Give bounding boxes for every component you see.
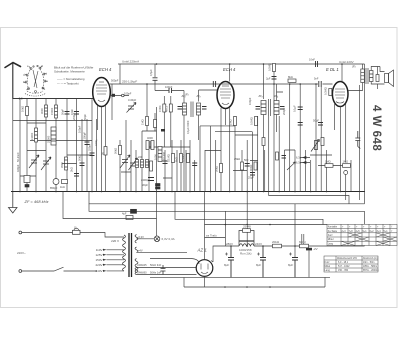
svg-text:517 - 1622: 517 - 1622 [338,265,350,268]
capacitor C17 [156,187,161,189]
capacitor C44 [282,156,287,159]
power transformer primary winding [123,233,139,277]
electrolytic C34 [289,253,298,278]
mains line L [21,233,124,238]
svg-text:(P): (P) [352,65,356,69]
svg-text:200pF: 200pF [72,112,76,120]
power transformer secondary 4V [135,247,138,253]
component value labels [16,58,356,275]
resistor R11 [241,162,244,170]
svg-text:Lang: Lang [328,243,334,246]
svg-text:5nF: 5nF [314,77,319,81]
wire B+ feeds [225,192,303,258]
svg-text:150V: 150V [95,258,102,262]
electrolytic C33 [257,246,266,277]
resistor R10 [220,164,223,173]
fuse Si [73,228,81,234]
wire routing step2 [89,192,365,204]
svg-text:3500: 3500 [60,162,64,168]
electrolytic C32 [225,246,234,277]
svg-text:7+8: 7+8 [349,230,354,233]
resistor R3 [119,146,122,155]
capacitor C30 [126,209,137,219]
wire routing step5 [364,211,366,246]
wire rail2 right [323,83,333,85]
frequency table [324,256,378,272]
svg-text:— — = Tastpunkt: — — = Tastpunkt [57,82,79,86]
capacitor C24 [272,77,277,80]
capacitor C23 [280,107,285,110]
svg-text:(P): (P) [185,93,189,97]
wire top rail drops [147,64,342,131]
svg-text:Wellenbereich kHz: Wellenbereich kHz [337,257,358,260]
svg-text:100pF: 100pF [165,85,173,89]
wire mid horizontals [142,126,258,147]
capacitor C43 [161,129,165,132]
svg-text:2+3: 2+3 [342,230,347,233]
wire C35 drop [308,250,310,277]
capacitor C28 [316,61,318,67]
svg-text:2400pF: 2400pF [141,178,150,182]
IF transformer 1 core [191,102,193,118]
wire AVC line [13,120,92,122]
switch arrow S2 [287,162,296,170]
ground [9,192,18,214]
wire chassis bus [11,191,365,193]
svg-text:6,3a: 6,3a [296,161,302,165]
wire table feed line [205,224,328,226]
svg-text:50-21nF: 50-21nF [16,152,20,162]
svg-text:185m - 580m: 185m - 580m [363,265,377,268]
svg-text:220 V: 220 V [111,239,119,243]
svg-text:2µF: 2µF [266,77,271,81]
resistor R1 [26,107,29,116]
wire grid tap line [110,95,129,97]
wire heater line [63,192,157,219]
svg-text:Kurz: Kurz [328,234,334,237]
resistor R20 [376,75,379,82]
svg-text:0,1µF-5000: 0,1µF-5000 [186,120,190,134]
speaker [385,74,389,83]
svg-text:0,1µF: 0,1µF [293,105,297,112]
svg-text:ZF = 468 kHz: ZF = 468 kHz [24,199,49,204]
svg-text:ZF₃: ZF₃ [258,94,263,98]
wire B+ from rectifier [211,261,213,263]
svg-text:100pF: 100pF [248,97,252,105]
wire right horizontals [300,155,351,166]
wire transformer feed stub [205,238,226,260]
svg-text:za Trafo: za Trafo [206,234,217,238]
svg-text:~6,3V: ~6,3V [137,235,144,239]
svg-text:30pF: 30pF [142,183,148,187]
voltage taps [103,249,107,272]
capacitor C37 [202,107,207,110]
svg-text:50kΩ: 50kΩ [78,155,82,161]
svg-text:4 W 648: 4 W 648 [370,105,382,151]
wire transformer drop [204,192,206,238]
svg-text:125V: 125V [95,253,102,257]
pickup arrows [303,156,306,163]
svg-text:250-1,5kpF: 250-1,5kpF [122,80,137,84]
svg-text:Umkl.220V: Umkl.220V [339,60,354,64]
tube U2 ECH4 [217,82,234,109]
capacitor C35 [306,248,312,251]
svg-text:Mittel: Mittel [325,265,331,268]
legend text block [54,66,94,86]
svg-text:1MΩ: 1MΩ [229,119,233,125]
junction circle [122,94,125,97]
svg-text:1kΩ: 1kΩ [60,185,65,189]
coil L6 [136,160,139,168]
wire tube2 legs [221,108,230,192]
resistor R27 [262,138,265,146]
capacitor C38 series [169,88,172,93]
resistor R24 [163,104,166,112]
svg-text:L3000: L3000 [30,132,34,140]
svg-text:UAW/90: UAW/90 [137,270,147,274]
trimmer capacitor C12 [120,155,130,168]
svg-text:25kΩ: 25kΩ [234,157,240,161]
svg-text:ZF₂: ZF₂ [196,94,201,98]
svg-text:3+4: 3+4 [377,230,382,233]
svg-text:5+1: 5+1 [384,230,389,233]
power transformer secondary HT [135,259,138,273]
capacitor C21 [250,173,255,176]
mains line N [21,267,97,271]
svg-text:Kurz: Kurz [325,261,331,264]
padder capacitor C15 [148,178,154,181]
wire rail2 [110,83,318,85]
choke L10 [239,231,254,247]
resistor R16 [329,89,332,96]
coil L2 [55,105,58,118]
tube U1 ECH4 [93,78,111,107]
capacitor C1 [65,112,70,115]
tube socket view diagram [24,65,48,96]
svg-text:10-300: 10-300 [162,151,166,160]
svg-text:Schaltseite. Messwerte: Schaltseite. Messwerte [54,70,85,74]
svg-text:4/0,1: 4/0,1 [165,106,169,112]
svg-text:4+5: 4+5 [356,230,361,233]
resistor R23 [300,244,309,248]
coil L7 [141,160,144,168]
svg-text:50kΩ: 50kΩ [114,148,118,154]
svg-text:16m - 50m: 16m - 50m [363,261,374,264]
wire B+ rail [205,246,365,287]
svg-text:25µF: 25µF [248,176,254,180]
capacitor C31 heater [161,265,166,275]
capacitor C7 [53,179,59,185]
svg-text:25000: 25000 [47,135,51,143]
svg-text:1MΩ: 1MΩ [325,160,331,164]
resistor R22 [273,244,282,248]
capacitor C29 [318,123,323,126]
capacitor C39 [153,78,158,81]
svg-text:47/04: 47/04 [158,105,162,112]
svg-text:3000: 3000 [40,108,44,114]
svg-text:AZ 1: AZ 1 [197,248,208,253]
svg-text:500pF: 500pF [111,79,119,83]
resistor R13 [273,64,276,72]
power transformer core [129,233,132,277]
coil L1 [45,105,48,117]
resistor R9 [255,117,258,126]
svg-text:240V: 240V [255,242,262,246]
svg-text:150 - 350: 150 - 350 [338,269,349,272]
wire misc connectors [62,150,295,178]
IF transformer ZF coil right [274,101,279,115]
wire 4V line [137,251,188,253]
wire tube1 legs [98,105,106,192]
switch table [327,224,397,245]
wire top rail [11,64,365,192]
capacitor C9 [90,153,95,156]
svg-text:6+2: 6+2 [370,230,375,233]
wire left horizontals [20,123,92,176]
pilot lamp [154,236,160,242]
svg-text:9+1: 9+1 [363,230,368,233]
resistor R15 [321,138,324,146]
trimmer capacitor C3 [29,155,39,168]
indicator circle [344,171,348,175]
svg-text:Ku-Taste: Ku-Taste [328,230,338,233]
svg-text:100pF: 100pF [83,132,87,140]
svg-text:0,3MΩ: 0,3MΩ [182,154,186,162]
output transformer primary [361,69,365,83]
svg-text:Ron 2(k): Ron 2(k) [240,252,252,256]
capacitor C20 [245,164,250,167]
svg-text:ACR₂: ACR₂ [94,140,98,146]
svg-text:0,5MΩ: 0,5MΩ [249,117,253,125]
wire tap leads [107,250,125,271]
resistor R2 [62,180,68,184]
svg-text:50kΩ: 50kΩ [215,166,219,172]
svg-text:Si: Si [74,226,77,230]
svg-text:UAW/25: UAW/25 [137,263,147,267]
svg-text:100pF: 100pF [124,92,132,96]
svg-text:50µF: 50µF [313,119,319,123]
capacitor C22 [256,107,261,110]
resistor R12 [254,162,257,170]
svg-text:0,5µF: 0,5µF [149,69,153,76]
resistor R18 [343,164,351,168]
svg-text:6,3a: 6,3a [296,156,302,160]
svg-text:220V~: 220V~ [17,251,26,255]
wire plate line to IFT1 [155,90,217,192]
rectifier tube AZ1 [196,260,213,277]
svg-text:110V: 110V [96,248,103,252]
capacitor C36 [178,107,183,110]
svg-text:-2V: -2V [313,247,318,251]
trimmer capacitor C40 [127,103,137,113]
svg-text:1MΩ: 1MΩ [141,119,145,125]
svg-text:60(k): 60(k) [299,240,306,244]
svg-text:1000: 1000 [154,154,158,160]
svg-text:50pF: 50pF [83,114,87,120]
svg-text:200pF: 200pF [282,107,286,115]
resistor R25 [169,104,172,112]
resistor R26 [146,117,149,126]
svg-text:15000: 15000 [50,107,54,115]
svg-text:Mittel: Mittel [328,238,334,241]
svg-text:Umkl.220mA: Umkl.220mA [122,60,139,64]
IF transformer 1 coil right [197,103,201,115]
capacitor C26 [298,123,303,126]
IF transformer ZF coil left [261,101,266,115]
capacitor C10 [80,163,85,166]
svg-text:10kΩ: 10kΩ [21,106,25,112]
oscillator coil L9 [146,141,149,150]
svg-text:250pF: 250pF [88,143,92,151]
wire IFT2 connections [264,84,284,192]
IF transformer 1 coil left [183,103,187,115]
resistor R17 [325,164,333,168]
svg-text:4µF: 4µF [122,212,127,216]
variable capacitor C5 [24,176,30,183]
svg-text:8µF: 8µF [224,263,229,267]
svg-text:0,1MΩ: 0,1MΩ [167,154,171,162]
svg-text:100pF: 100pF [78,125,82,133]
capacitor C11 [74,174,79,177]
coil L4 [51,127,56,145]
output transformer secondary [370,71,374,82]
power transformer secondary heater [135,268,138,275]
svg-text:1MΩ: 1MΩ [343,160,349,164]
capacitor C25 [298,107,303,110]
capacitor C27 series [319,81,321,87]
capacitor C18 [163,161,168,164]
svg-text:400Ω: 400Ω [249,165,253,171]
tube U3 EDL1 [332,82,348,107]
wire speaker drop [377,67,379,90]
resistor R8 [234,117,237,126]
svg-text:0,3MΩ: 0,3MΩ [324,87,328,95]
resistor R14 [288,79,296,82]
svg-text:Abstimmb.(m): Abstimmb.(m) [363,257,378,260]
svg-text:E DL 1: E DL 1 [326,67,339,72]
resistor R5 [172,154,175,163]
IF transformer core [269,99,271,116]
svg-text:4000: 4000 [147,136,153,140]
trimmer capacitor C13 [129,158,138,170]
resistor R29 [276,152,279,160]
wire mid columns [112,84,216,192]
wire antenna bus [13,98,93,100]
wire 6.3V line [137,238,155,240]
wire lamp feed [156,192,158,237]
capacitor C8 [85,142,90,145]
svg-text:ZF₄: ZF₄ [273,94,278,98]
potentiometer P1 [311,140,320,152]
svg-text:220: 220 [138,155,143,159]
wire output transformer connections [348,64,385,91]
wire rail drop left [119,64,121,84]
wire routing step1 [269,192,349,204]
capacitor C42 [112,94,116,97]
svg-text:20kΩ: 20kΩ [272,240,280,244]
wire routing step3 [89,204,365,212]
coil L8 [146,160,149,168]
capacitor C45 series [213,81,215,87]
svg-text:50pF: 50pF [61,109,65,115]
resistor R30 [104,147,107,156]
svg-text:≈4V: ≈4V [138,248,143,252]
output transformer core [366,68,368,84]
resistor R21 bypass [243,229,251,233]
wire left columns [13,99,97,192]
coil L5 [65,157,68,170]
capacitor C16 [156,184,161,187]
svg-text:Kontakte: Kontakte [328,226,338,229]
switch table crosses [348,233,390,237]
svg-text:500: 500 [244,158,249,162]
coil L3 [35,128,38,142]
svg-text:50Hz 3nF: 50Hz 3nF [150,263,162,267]
wire rectifier loop [150,259,330,288]
wire right verticals [360,64,365,204]
trimmer capacitor C4 [41,157,51,170]
svg-text:5kΩ: 5kΩ [175,157,179,162]
svg-text:10nF: 10nF [309,58,315,62]
svg-text:8kΩ: 8kΩ [288,75,293,79]
svg-text:ECH 4: ECH 4 [99,67,112,72]
wire routing step4 [175,192,323,225]
resistor R6 [180,154,183,163]
capacitor C2 [74,112,79,115]
wire tube3 legs [335,104,352,200]
svg-text:Lang: Lang [325,269,331,272]
wire R24 R25 leads [164,96,171,147]
antenna [5,63,21,99]
capacitor C6 [25,185,29,188]
capacitor C41 [355,131,360,149]
svg-text:220V: 220V [95,263,102,267]
svg-text:280V: 280V [226,242,233,246]
svg-text:25-48: 25-48 [243,225,251,229]
svg-text:8µF: 8µF [256,263,261,267]
svg-text:50Hz 1nF: 50Hz 1nF [150,270,162,274]
wire mid-right columns [235,72,327,192]
svg-text:850pF: 850pF [50,186,58,190]
capacitor C19 [192,163,197,166]
power transformer secondary 6.3V [135,235,138,243]
svg-text:2kΩ: 2kΩ [70,167,74,172]
tall component C14 [158,147,162,162]
svg-text:420pF: 420pF [16,164,20,172]
wire R28 leads [154,113,156,131]
svg-text:3-30pF: 3-30pF [128,98,137,102]
wire heater AZ1 lines [137,268,197,275]
svg-text:6,0 - 18,1: 6,0 - 18,1 [338,261,349,264]
svg-text:8µF: 8µF [288,263,293,267]
resistor R28 [154,120,157,128]
svg-text:6,3V 0,3A: 6,3V 0,3A [162,237,175,241]
svg-text:0,5MΩ: 0,5MΩ [268,63,272,71]
resistor R7 [187,154,190,163]
svg-text:240V: 240V [95,269,102,273]
svg-text:—— = Normalstellung: —— = Normalstellung [57,77,85,81]
svg-text:857m - 2000m: 857m - 2000m [363,269,378,272]
mains plug circles [19,231,22,272]
resistor R4 [150,161,153,171]
